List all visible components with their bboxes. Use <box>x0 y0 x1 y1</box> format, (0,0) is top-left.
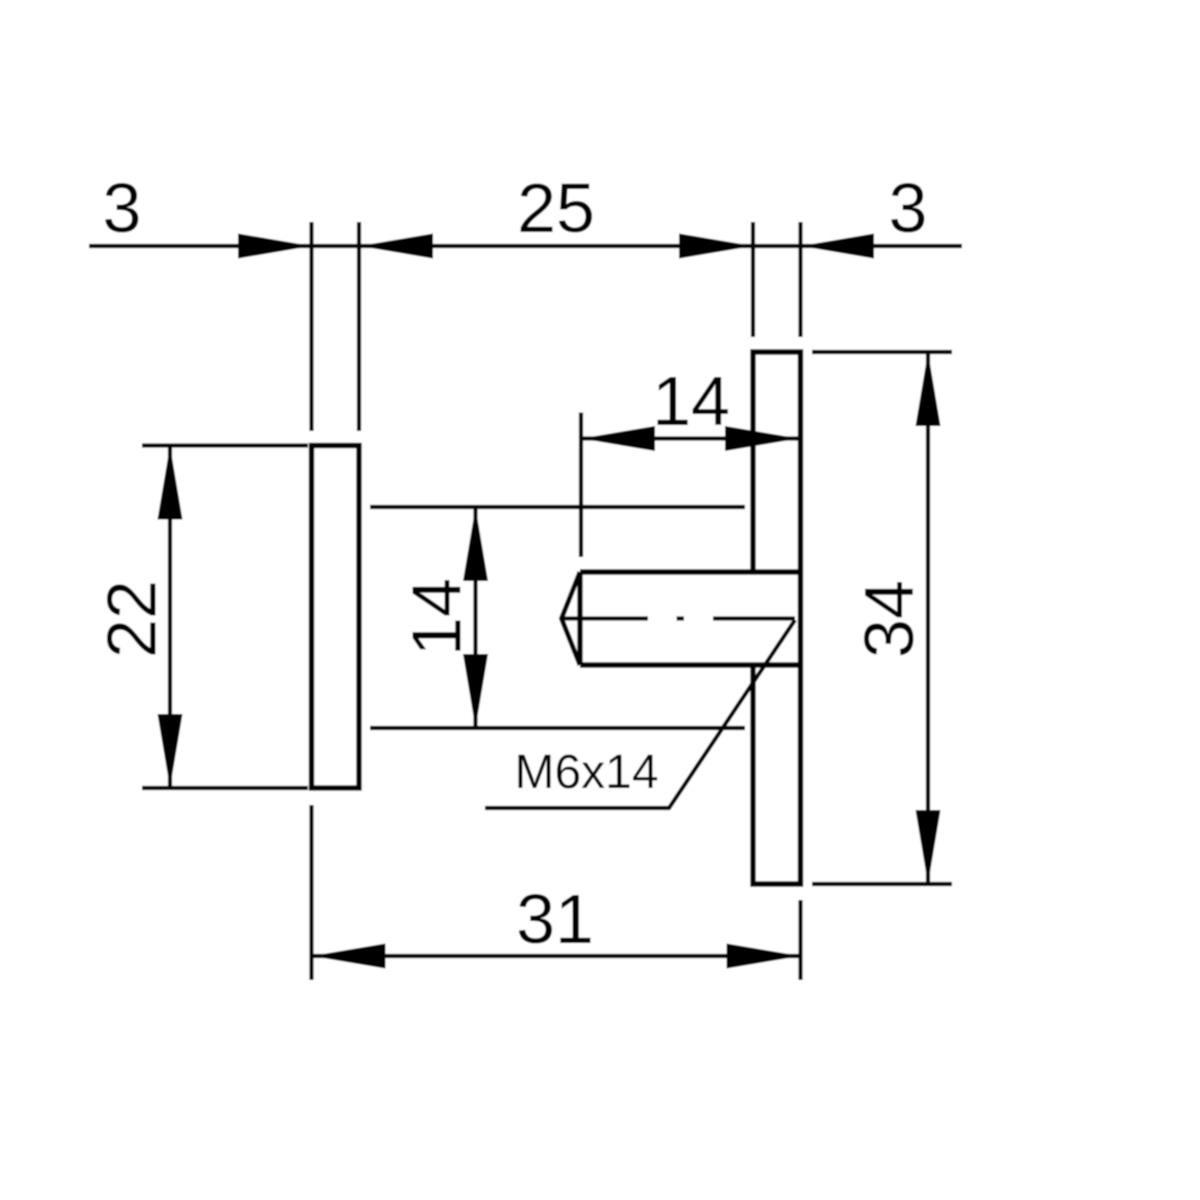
svg-text:14: 14 <box>398 578 476 656</box>
dimension 31: left arrow <box>312 944 386 969</box>
dimension 34: bottom arrow <box>916 810 941 884</box>
dimension 34: extension lines <box>812 352 952 884</box>
dimension 31: dimension line <box>312 954 801 958</box>
dimension 22: dimension line <box>168 446 172 789</box>
dimension 31: extension lines <box>312 805 801 980</box>
dimension 22: top arrow <box>158 446 183 520</box>
right plate (3mm panel, screw passes through) <box>753 352 801 884</box>
extension lines top dimensions <box>312 222 801 431</box>
dimension 14 vertical: dimension line <box>473 507 477 728</box>
dimension 14 top: dimension line <box>581 436 799 440</box>
svg-text:22: 22 <box>93 580 171 658</box>
dimension 14 vertical: bottom arrow <box>463 654 488 728</box>
dimension 14 top: right arrow <box>725 426 799 451</box>
svg-text:34: 34 <box>850 580 928 658</box>
screw M6x14 body <box>580 572 801 665</box>
dimension 14 vertical: top arrow <box>463 507 488 581</box>
svg-text:14: 14 <box>652 362 730 440</box>
leader line for M6x14 <box>485 620 795 808</box>
arrow tip left at right plate right edge <box>801 234 875 259</box>
screw centerline (dash-dot) <box>562 616 796 620</box>
dimension 22: bottom arrow <box>158 714 183 788</box>
svg-text:3: 3 <box>103 169 142 247</box>
dimension 14 top: extension line <box>579 413 583 558</box>
arrow tip right at right plate left edge <box>679 234 753 259</box>
screw cone point <box>562 572 581 665</box>
dimension 34: dimension line <box>926 352 930 884</box>
svg-text:25: 25 <box>517 169 595 247</box>
dimension 14 top: left arrow <box>581 426 655 451</box>
arrow tip right at left plate left edge <box>238 234 312 259</box>
svg-text:31: 31 <box>516 880 594 958</box>
hole projection lines (Ø14) <box>370 507 745 728</box>
arrow tip left at left plate right edge <box>359 234 433 259</box>
top dimension line (3 / 25 / 3) <box>89 244 962 248</box>
left plate (3mm glass/panel) <box>312 446 360 789</box>
svg-text:M6x14: M6x14 <box>514 746 658 799</box>
dimension 34: top arrow <box>916 352 941 426</box>
dimension 22: extension lines <box>142 446 308 789</box>
svg-text:3: 3 <box>889 169 928 247</box>
dimension 31: right arrow <box>727 944 801 969</box>
